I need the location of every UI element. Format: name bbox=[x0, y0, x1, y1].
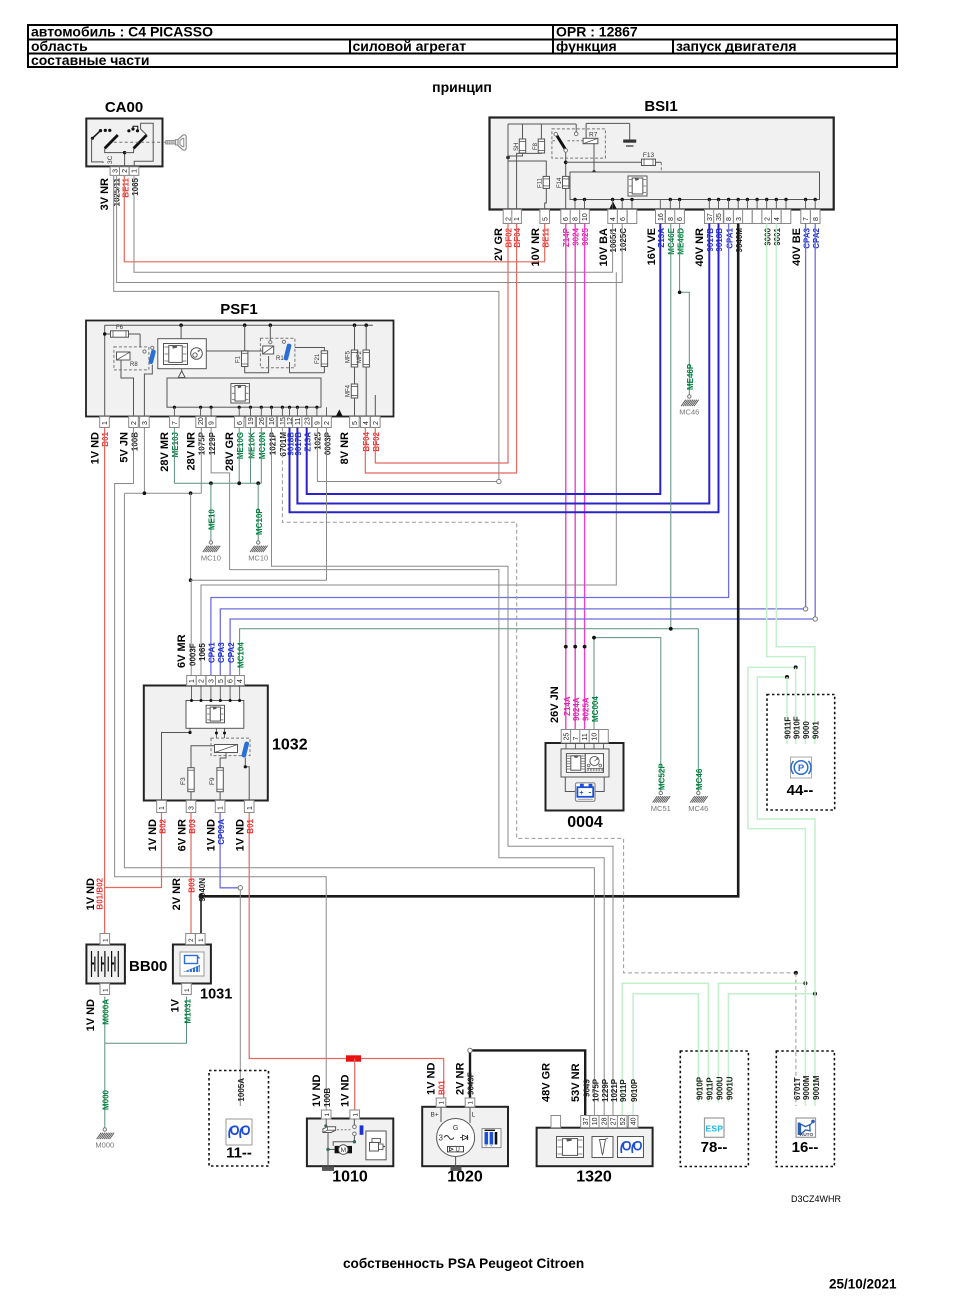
BSI1 pin nc box bbox=[781, 210, 791, 224]
svg-text:9011F: 9011F bbox=[784, 717, 793, 739]
svg-text:силовой агрегат: силовой агрегат bbox=[353, 38, 467, 54]
BSI1 internal ground bbox=[623, 140, 636, 143]
alternator 1020 box bbox=[422, 1107, 508, 1166]
PSF1 fuse MF2 bbox=[365, 325, 367, 350]
svg-text:1: 1 bbox=[102, 938, 109, 942]
svg-text:16: 16 bbox=[269, 417, 276, 425]
wire B01 stub to 1010 bbox=[354, 1059, 356, 1111]
ground MC51 bbox=[659, 791, 662, 794]
svg-text:ME10J: ME10J bbox=[171, 432, 180, 457]
svg-text:SH: SH bbox=[514, 143, 520, 151]
1020 alt circle bbox=[437, 1119, 475, 1157]
PSF1 F6 down wire bbox=[139, 334, 141, 348]
1032 F9 wires bbox=[219, 792, 221, 801]
BSI1 R7 coil bottom stub bbox=[593, 144, 595, 172]
PSF1 R8 coil bbox=[117, 352, 131, 360]
PSF1 pin 2 box bbox=[371, 417, 381, 428]
svg-text:9010P: 9010P bbox=[630, 1078, 639, 1102]
1032 wire B02 inner bbox=[162, 728, 191, 800]
svg-text:1: 1 bbox=[159, 806, 166, 810]
1010 motor bbox=[335, 1146, 341, 1153]
wire 9001 BSI1 to 44 bbox=[776, 224, 815, 745]
1032 top pin 1 bbox=[187, 676, 197, 686]
wire B03 1032 to 1031 bbox=[190, 813, 192, 934]
svg-text:F21: F21 bbox=[315, 353, 321, 364]
wire ME10 to ground bbox=[210, 483, 212, 541]
1010 wire contact down bbox=[333, 1136, 354, 1146]
PSF1 pin 23 box bbox=[302, 417, 312, 428]
0004 inner module bbox=[561, 749, 609, 777]
1031 top pin 1 bbox=[196, 934, 206, 945]
PSF1 bottom marker triangle bbox=[336, 410, 343, 417]
svg-text:1V ND: 1V ND bbox=[206, 819, 218, 851]
BSI1 top wire left bbox=[508, 123, 576, 125]
svg-text:37: 37 bbox=[707, 213, 714, 221]
svg-text:3: 3 bbox=[142, 421, 149, 425]
svg-text:1065: 1065 bbox=[131, 177, 140, 195]
PSF1 R8 coil bottom wire bbox=[121, 360, 134, 417]
wire 1021P bbox=[272, 428, 614, 1116]
BSI1 pin 6 box bbox=[561, 210, 571, 224]
svg-text:2: 2 bbox=[131, 421, 138, 425]
junction 9001M bbox=[813, 992, 817, 996]
ground M000 bbox=[103, 1128, 106, 1131]
junction MC10P bbox=[256, 481, 260, 485]
svg-text:CPA3: CPA3 bbox=[802, 227, 811, 248]
0004 top pin 10 bbox=[589, 730, 599, 744]
0004 gauge icon bbox=[585, 754, 603, 773]
1032 relay dashed box bbox=[211, 738, 250, 756]
BSI1 pin 10 box bbox=[580, 210, 590, 224]
svg-text:9040N: 9040N bbox=[198, 878, 207, 902]
svg-text:1229P: 1229P bbox=[601, 1078, 610, 1102]
svg-text:F3: F3 bbox=[180, 777, 187, 785]
svg-text:CA00: CA00 bbox=[105, 99, 143, 116]
PSF1 F1 bottom wire bbox=[245, 356, 269, 373]
wire B02 1032 to join bbox=[105, 813, 162, 888]
svg-text:9001U: 9001U bbox=[725, 1076, 734, 1100]
PSF1 pin 9 box bbox=[312, 417, 322, 428]
svg-text:2: 2 bbox=[324, 421, 331, 425]
CA00 wire sw2 bottom bbox=[125, 148, 134, 152]
1020 alt stem bbox=[455, 1157, 457, 1167]
CA00 junction sw bottom bbox=[123, 151, 126, 154]
BB00 plates bbox=[91, 951, 93, 977]
wire 1075P bus bbox=[124, 492, 201, 494]
svg-text:принцип: принцип bbox=[432, 79, 492, 95]
PSF1 pin 3 box bbox=[140, 417, 150, 428]
wire 0003 link down bbox=[190, 493, 192, 580]
splice 9049F bbox=[468, 1048, 472, 1052]
svg-text:11--: 11-- bbox=[226, 1145, 252, 1162]
wire BE11 CA00 to BSI1 bbox=[124, 176, 544, 262]
splice CPA2 bbox=[813, 617, 817, 621]
wire B01 PSF1 to BB00 bbox=[104, 428, 106, 934]
svg-text:составные части: составные части bbox=[31, 52, 149, 68]
svg-text:6: 6 bbox=[228, 679, 235, 683]
svg-text:8: 8 bbox=[573, 217, 580, 221]
0004 top pin nc bbox=[599, 730, 609, 744]
svg-text:F11: F11 bbox=[538, 177, 544, 188]
1320 pin 48V bbox=[551, 1116, 561, 1128]
BSI1 F11 top wire bbox=[508, 161, 546, 176]
1020 alt regulator bbox=[448, 1146, 464, 1152]
PSF1 fuse F1 bbox=[244, 325, 246, 351]
svg-text:1: 1 bbox=[198, 938, 205, 942]
BSI1 pin 1 box bbox=[512, 210, 522, 224]
svg-text:F9: F9 bbox=[209, 777, 216, 785]
PSF1 R1 coil bbox=[263, 346, 274, 354]
CA00 wire right loop pin1 bbox=[134, 123, 153, 166]
CA00 switch blade 2 bbox=[134, 135, 147, 148]
1320 pin 52 bbox=[617, 1116, 627, 1128]
svg-text:1021P: 1021P bbox=[268, 431, 277, 455]
CA00 pin 3 bbox=[110, 167, 120, 176]
PSF1 R1 link wire bbox=[206, 350, 262, 352]
svg-text:37: 37 bbox=[583, 1117, 590, 1125]
svg-text:25: 25 bbox=[564, 733, 571, 741]
wire MC10N down bbox=[260, 428, 262, 484]
svg-text:9000: 9000 bbox=[763, 227, 772, 245]
BSI1 F13 out bbox=[656, 161, 662, 163]
svg-text:10: 10 bbox=[592, 1117, 599, 1125]
1010 wire dot to brush bbox=[328, 1148, 335, 1150]
svg-text:MC46: MC46 bbox=[688, 804, 708, 813]
1032 junction relay out bbox=[244, 765, 247, 768]
wire 1065 CA00 to BSI1 bbox=[134, 176, 613, 272]
svg-text:ME10K: ME10K bbox=[247, 432, 256, 459]
svg-text:Z13A: Z13A bbox=[304, 432, 313, 452]
wire 1025C CA00 pin3 to BSI1 bbox=[117, 176, 623, 283]
svg-text:1: 1 bbox=[102, 988, 109, 992]
svg-text:MC46E: MC46E bbox=[667, 227, 676, 254]
wire 9001U net bbox=[728, 994, 815, 1102]
svg-text:MC10N: MC10N bbox=[258, 432, 267, 459]
svg-text:1005A: 1005A bbox=[237, 1078, 246, 1102]
wire ME10G down bbox=[238, 428, 240, 484]
wire ME10K down bbox=[250, 428, 252, 484]
CA00 wire left to pin3 bbox=[92, 138, 103, 163]
svg-text:4: 4 bbox=[237, 679, 244, 683]
1320 injector icon bbox=[592, 1137, 613, 1158]
svg-text:11: 11 bbox=[295, 418, 302, 425]
svg-text:40V BE: 40V BE bbox=[791, 228, 803, 266]
wire 1065 branch to 1032 bbox=[201, 272, 616, 675]
0004 pin stubs bbox=[565, 743, 567, 749]
PSF1 BF02 stub bbox=[374, 395, 376, 417]
BSI1 pin nc box bbox=[752, 210, 762, 224]
1032 bottom pin 3 bbox=[186, 801, 196, 813]
svg-text:3: 3 bbox=[736, 217, 743, 221]
svg-text:100B: 100B bbox=[323, 1088, 332, 1107]
svg-text:PSF1: PSF1 bbox=[220, 301, 258, 318]
splice 1025 bbox=[497, 479, 501, 483]
svg-text:+: + bbox=[579, 790, 583, 797]
svg-text:1021P: 1021P bbox=[610, 1078, 619, 1102]
svg-text:6: 6 bbox=[237, 421, 244, 425]
BSI1 R7 coil bbox=[583, 138, 598, 143]
wire ME10 bus bbox=[174, 482, 261, 484]
svg-text:53V NR: 53V NR bbox=[570, 1063, 582, 1102]
svg-text:3C: 3C bbox=[107, 155, 114, 164]
ground MC10 right bbox=[257, 541, 260, 544]
svg-text:MC10P: MC10P bbox=[255, 508, 264, 535]
svg-text:9000M: 9000M bbox=[802, 1075, 811, 1100]
ignition switch CA00 box bbox=[86, 119, 162, 167]
wire ME10J down bbox=[173, 428, 175, 484]
svg-text:9025A: 9025A bbox=[581, 697, 590, 721]
svg-text:B03: B03 bbox=[187, 877, 196, 892]
svg-text:ME10G: ME10G bbox=[236, 432, 245, 459]
svg-text:4: 4 bbox=[363, 421, 370, 425]
CA00 key shaft bbox=[164, 141, 166, 144]
1032 top pin 5 bbox=[216, 676, 226, 686]
svg-text:19: 19 bbox=[248, 417, 255, 425]
wire 1075P long bbox=[124, 493, 594, 1115]
wire MC46E BSI1 down bbox=[670, 224, 672, 629]
svg-text:3: 3 bbox=[113, 169, 120, 173]
svg-text:1229P: 1229P bbox=[208, 431, 217, 455]
svg-text:9001: 9001 bbox=[773, 227, 782, 245]
svg-text:3V NR: 3V NR bbox=[99, 178, 111, 210]
svg-text:6: 6 bbox=[563, 217, 570, 221]
BSI1 blade out wire bbox=[565, 152, 567, 178]
svg-text:35: 35 bbox=[716, 213, 723, 221]
wire MC10P to ground bbox=[257, 483, 259, 541]
svg-text:3: 3 bbox=[439, 1134, 444, 1143]
svg-text:M: M bbox=[341, 1147, 346, 1154]
svg-text:MC104: MC104 bbox=[236, 642, 245, 668]
BSI1 R7 fixed contact bbox=[574, 132, 578, 136]
wire 9000M vertical bbox=[748, 667, 806, 1106]
PSF1 F21 top wire bbox=[295, 348, 325, 351]
0004 top pin 25 bbox=[561, 730, 571, 744]
BSI1 inner pin stubs bbox=[574, 200, 576, 210]
svg-text:1: 1 bbox=[218, 806, 225, 810]
svg-text:1V ND: 1V ND bbox=[235, 819, 247, 851]
PSF1 pin 2 box bbox=[322, 417, 332, 428]
PSF1 pin 11 box bbox=[293, 417, 303, 428]
PSF1 fuse F6 bbox=[105, 333, 110, 335]
svg-text:3: 3 bbox=[209, 679, 216, 683]
wire 9017B BSI1 to PSF1 bbox=[297, 224, 709, 504]
BSI1 F13 wire bbox=[566, 161, 642, 163]
svg-text:1V ND: 1V ND bbox=[311, 1075, 323, 1107]
44 parking brake icon bbox=[791, 757, 812, 778]
wire BF04 PSF1 to BSI1 bbox=[365, 224, 516, 474]
svg-text:0004: 0004 bbox=[567, 814, 603, 831]
BSI1 pin 37 box bbox=[705, 210, 715, 224]
junction 9040N bbox=[199, 894, 204, 899]
CA00 contact hook bbox=[133, 126, 138, 129]
junction 9024A bbox=[573, 645, 577, 649]
svg-text:1V: 1V bbox=[170, 998, 182, 1012]
svg-text:6V NR: 6V NR bbox=[177, 819, 189, 851]
svg-text:9001M: 9001M bbox=[812, 1075, 821, 1100]
BSI1 junction BF02 bbox=[506, 156, 510, 160]
svg-text:0003P: 0003P bbox=[323, 431, 332, 455]
svg-text:Z13A: Z13A bbox=[657, 228, 666, 248]
junction Z14A bbox=[564, 645, 568, 649]
svg-text:52: 52 bbox=[620, 1117, 627, 1125]
1320 pin 27 bbox=[608, 1116, 618, 1128]
BB00 top pin 1 bbox=[100, 934, 110, 945]
svg-text:9001: 9001 bbox=[811, 721, 820, 739]
svg-text:запуск двигателя: запуск двигателя bbox=[676, 38, 797, 54]
wire M000A BB00 to ground bbox=[104, 997, 106, 1129]
BSI1 inner IC bbox=[628, 176, 647, 196]
BSI1 relay R7 dashed box bbox=[552, 129, 606, 158]
wire CP09A 1032 down bbox=[220, 813, 238, 888]
junction ME10G bbox=[237, 481, 241, 485]
BSI1 box bbox=[490, 118, 834, 210]
svg-text:2V GR: 2V GR bbox=[493, 228, 505, 261]
svg-text:B01: B01 bbox=[101, 431, 110, 446]
1010 blue bar bbox=[360, 1125, 364, 1134]
0004 battery icon bbox=[576, 783, 596, 802]
svg-text:F14: F14 bbox=[557, 177, 563, 188]
BSI1 junction coil-module bbox=[592, 170, 596, 174]
BB00 bottom pin 1 bbox=[100, 984, 110, 995]
svg-text:P: P bbox=[798, 763, 805, 774]
ground MC10 left bbox=[209, 541, 212, 544]
svg-text:R7: R7 bbox=[589, 132, 598, 139]
PSF1 pin 9 box bbox=[206, 417, 216, 428]
svg-text:0003F: 0003F bbox=[188, 643, 197, 666]
starter 1010 box bbox=[307, 1119, 393, 1167]
PSF1 R8 blue bar bbox=[148, 349, 156, 364]
junction 6701T bbox=[794, 971, 798, 975]
svg-text:BB00: BB00 bbox=[129, 958, 167, 975]
PSF1 pin 6 box bbox=[234, 417, 244, 428]
svg-text:D3CZ4WHR: D3CZ4WHR bbox=[791, 1194, 842, 1204]
svg-text:MC004: MC004 bbox=[591, 696, 600, 722]
svg-text:10V NR: 10V NR bbox=[530, 228, 542, 267]
svg-text:BF02: BF02 bbox=[505, 227, 514, 247]
BSI1 R7 coil top stub bbox=[585, 123, 587, 138]
svg-text:B03: B03 bbox=[188, 818, 197, 833]
1320 pin 10 bbox=[590, 1116, 600, 1128]
svg-text:1: 1 bbox=[247, 806, 254, 810]
svg-text:-: - bbox=[588, 788, 591, 797]
PSF1 pin 20 box bbox=[196, 417, 206, 428]
BSI1 fuse F14 bbox=[563, 176, 569, 188]
svg-text:48V GR: 48V GR bbox=[541, 1063, 553, 1102]
svg-text:B01: B01 bbox=[246, 818, 255, 833]
svg-text:9000: 9000 bbox=[802, 721, 811, 739]
junction 0003F bbox=[189, 578, 193, 582]
svg-text:9: 9 bbox=[209, 421, 216, 425]
svg-text:CPA2: CPA2 bbox=[812, 227, 821, 248]
1010 pin wires inside bbox=[325, 1119, 327, 1128]
BB00 plate dots bbox=[92, 962, 94, 964]
PSF1 ecu pin stubs bbox=[173, 407, 175, 416]
wire Z13A BSI1 to PSF1 bbox=[307, 224, 661, 495]
CA00 contact dots right bbox=[127, 129, 130, 132]
BSI1 pin 4 box bbox=[772, 210, 782, 224]
1032 inner chip bbox=[206, 705, 224, 723]
PSF1 ecu chip bbox=[231, 384, 250, 404]
wire MC004 0004 to ground bbox=[594, 638, 661, 792]
svg-text:9010F: 9010F bbox=[792, 716, 801, 739]
svg-text:1065: 1065 bbox=[198, 643, 207, 661]
svg-text:1032: 1032 bbox=[272, 737, 308, 754]
svg-text:MC51: MC51 bbox=[651, 804, 671, 813]
BSI1 pin 2 box bbox=[503, 210, 513, 224]
svg-text:M000A: M000A bbox=[102, 999, 111, 1025]
BSI1 wire BF02 vert bbox=[507, 124, 509, 210]
PSF1 pin 16 box bbox=[267, 417, 277, 428]
svg-text:ESP: ESP bbox=[705, 1123, 723, 1133]
esp 78 dashed box bbox=[680, 1051, 748, 1167]
svg-text:M1031: M1031 bbox=[183, 998, 192, 1023]
1032 fuse F3 bbox=[188, 768, 194, 792]
svg-text:8V NR: 8V NR bbox=[339, 432, 351, 464]
1032 inner module bbox=[186, 701, 244, 729]
PSF1 ecu pin dots bbox=[173, 406, 176, 409]
splice 1005A bbox=[238, 886, 242, 890]
svg-text:MC10: MC10 bbox=[201, 554, 221, 563]
wire 1229P bbox=[211, 428, 604, 1116]
svg-text:2: 2 bbox=[199, 679, 206, 683]
svg-text:26V JN: 26V JN bbox=[549, 686, 561, 723]
wire 9049F 1020 to 1320 bbox=[470, 1050, 585, 1115]
header row lines bbox=[28, 39, 897, 41]
BSI1 pin 8 box bbox=[666, 210, 676, 224]
header col line r1 bbox=[552, 25, 554, 40]
wire 9011F stub bbox=[786, 677, 788, 744]
wire 1025 CA00 pin3 to splice bbox=[114, 176, 499, 482]
svg-text:4: 4 bbox=[610, 217, 617, 221]
svg-text:26: 26 bbox=[259, 417, 266, 425]
svg-text:Z14P: Z14P bbox=[562, 227, 571, 247]
1032 bottom pin 1 bbox=[215, 801, 225, 813]
svg-text:Z14A: Z14A bbox=[563, 696, 572, 716]
PSF1 R1 top wire bbox=[269, 325, 271, 340]
svg-text:1075P: 1075P bbox=[197, 431, 206, 455]
svg-text:BF04: BF04 bbox=[513, 227, 522, 247]
wire MC104 1032 to ground bbox=[240, 629, 699, 792]
1010 wire coil down bbox=[327, 1132, 329, 1166]
svg-text:F13: F13 bbox=[643, 152, 655, 159]
svg-text:9011P: 9011P bbox=[705, 1077, 714, 1100]
1032 bottom pin 1 bbox=[157, 801, 167, 813]
BSI1 fuse F8 bbox=[540, 124, 542, 139]
0004 top pin 11 bbox=[580, 730, 590, 744]
PSF1 inner ecu box bbox=[167, 378, 321, 407]
svg-text:10: 10 bbox=[582, 213, 589, 221]
svg-text:28V NR: 28V NR bbox=[186, 432, 198, 471]
PSF1 box bbox=[86, 321, 394, 417]
BSI1 top wire right bbox=[586, 122, 630, 124]
svg-text:28V GR: 28V GR bbox=[224, 432, 236, 471]
svg-text:CPA2: CPA2 bbox=[227, 642, 236, 663]
1020 bottom tab bbox=[451, 1166, 462, 1171]
header col lines r2 bbox=[349, 40, 351, 54]
BSI1 fuse SH bbox=[522, 124, 524, 139]
svg-text:7: 7 bbox=[573, 737, 580, 741]
BSI1 pin 8 box bbox=[570, 210, 580, 224]
svg-text:MC52P: MC52P bbox=[658, 763, 667, 790]
BSI1 R7 blade circles bbox=[554, 132, 558, 136]
PSF1 pin 26 box bbox=[257, 417, 267, 428]
1032 inner pin dots bbox=[190, 699, 193, 702]
svg-text:ME46P: ME46P bbox=[686, 363, 695, 390]
CA00 key axis dashed bbox=[114, 141, 161, 143]
PSF1 lamp symbol bbox=[191, 348, 203, 360]
1020 pin stubs bbox=[440, 1107, 442, 1122]
0004 top pin 7 bbox=[571, 730, 581, 744]
